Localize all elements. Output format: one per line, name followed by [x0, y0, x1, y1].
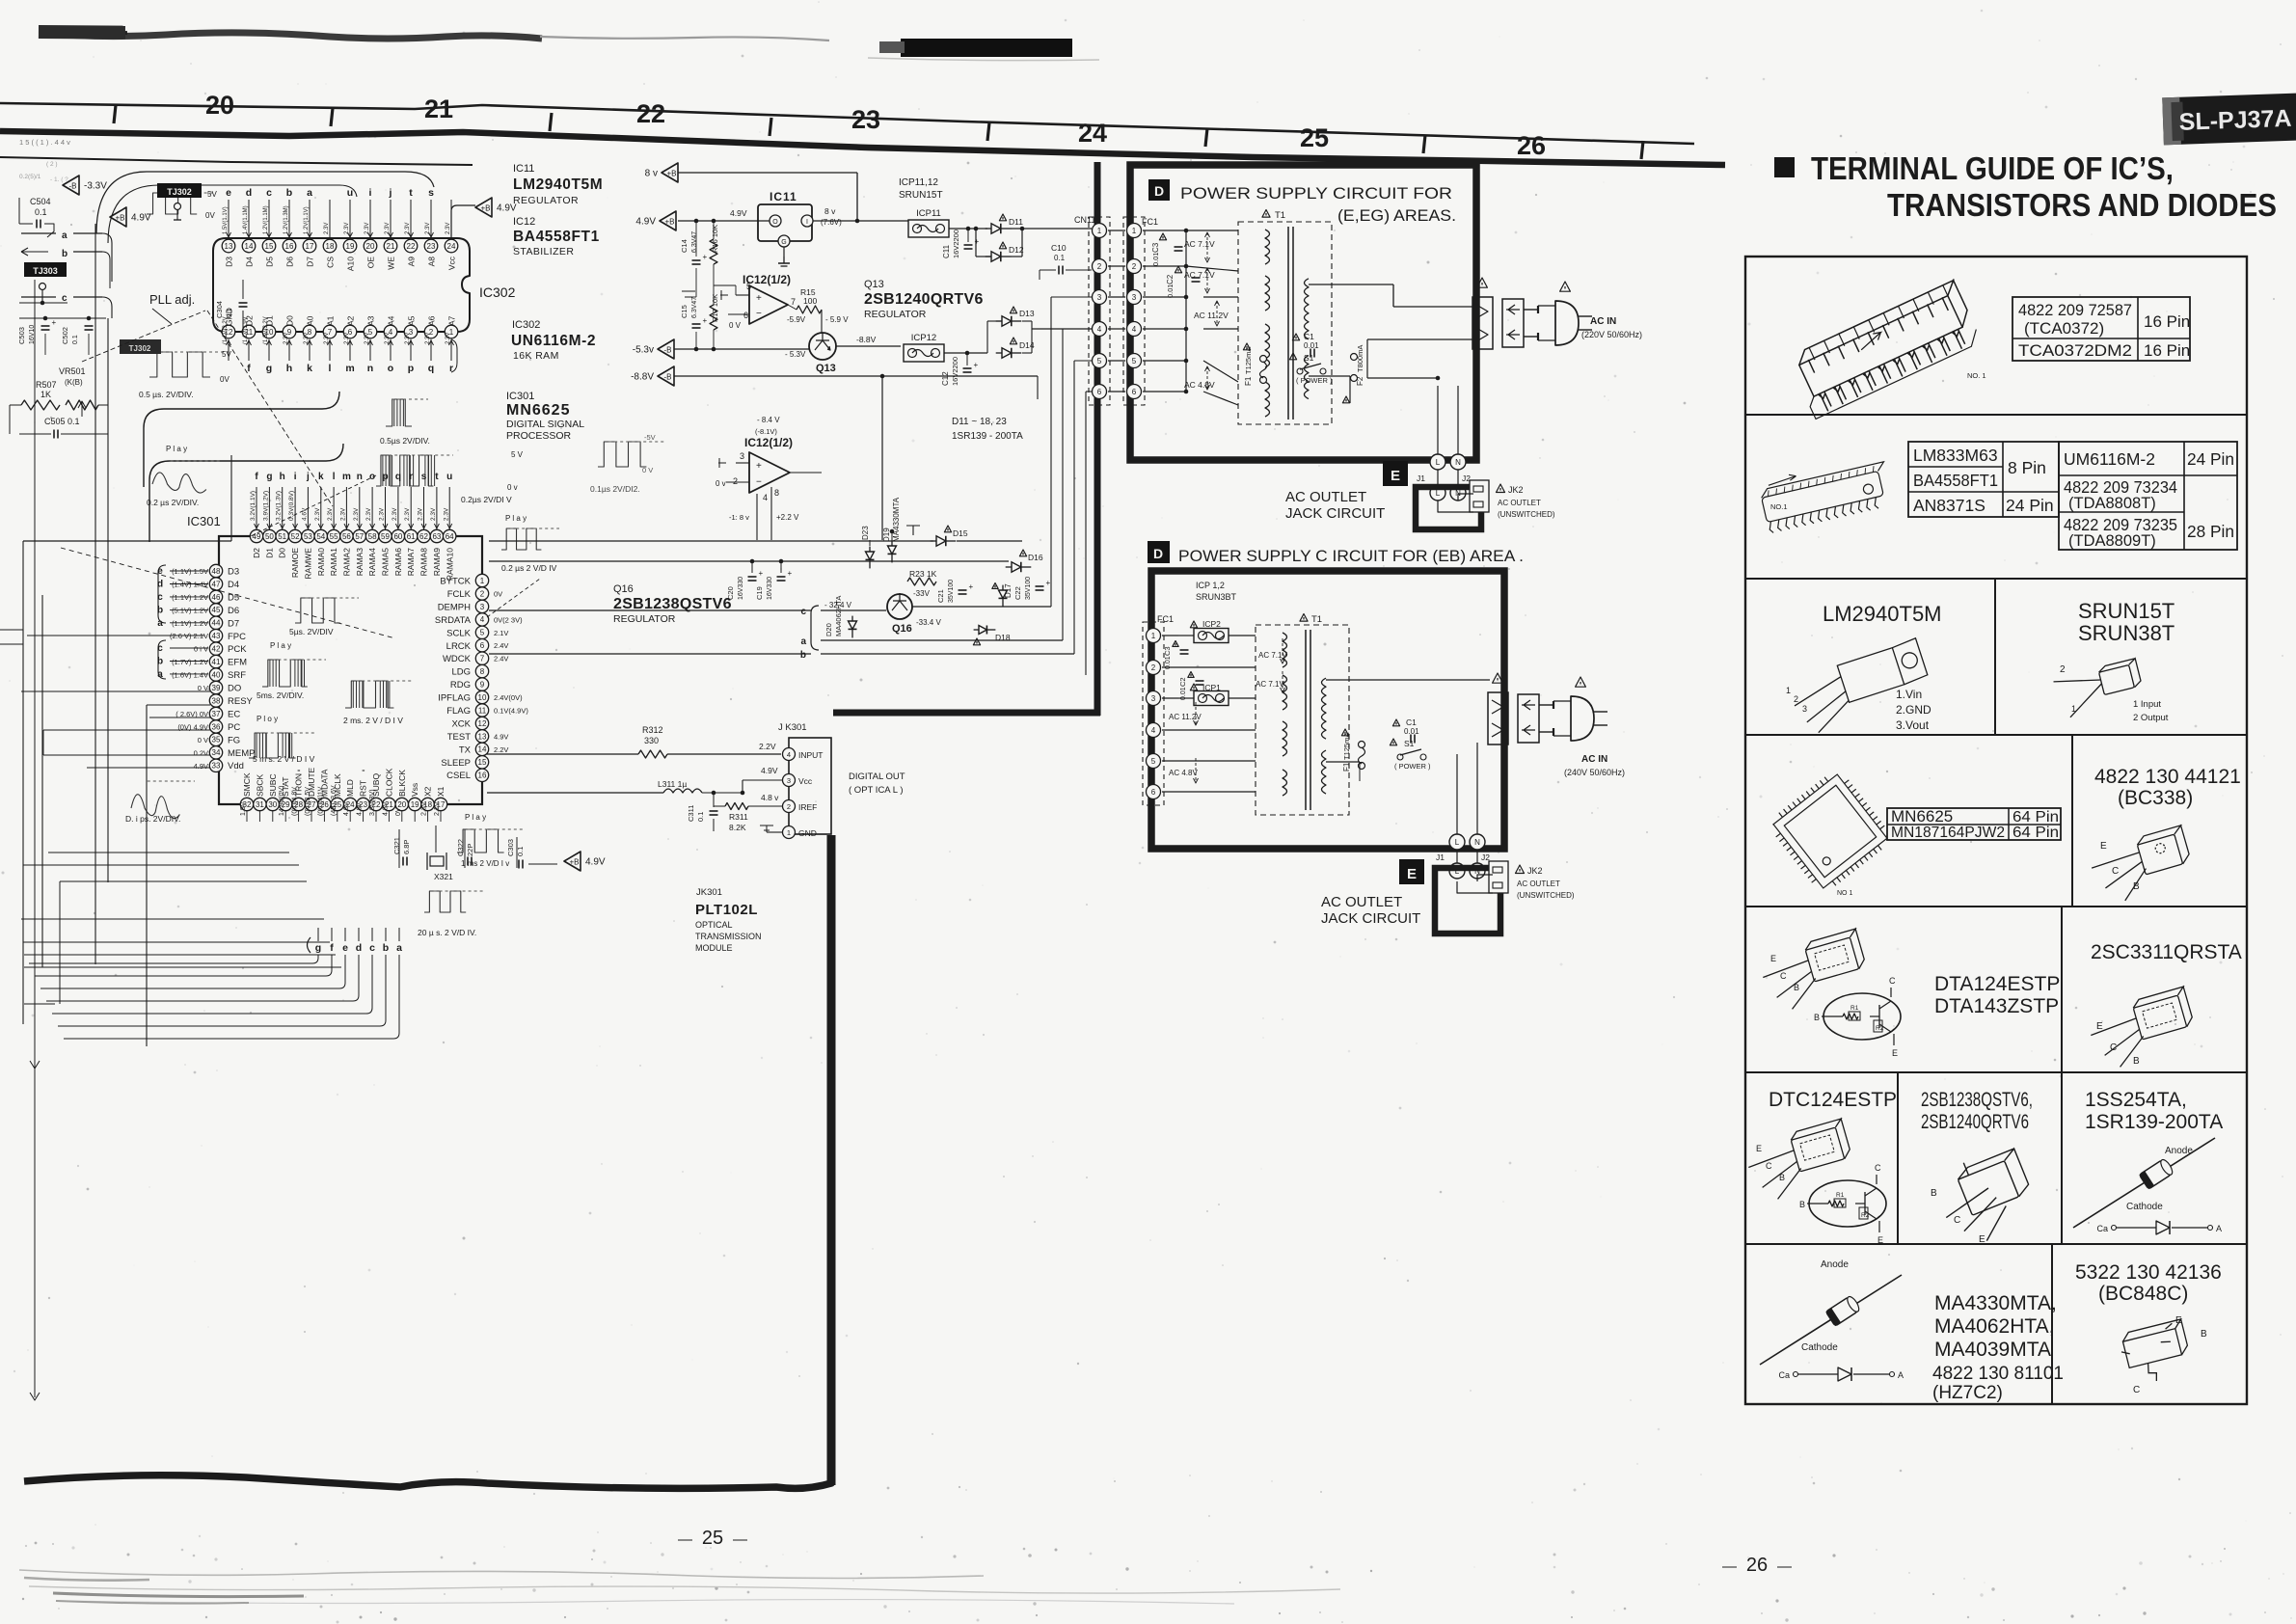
svg-text:C: C [2110, 1042, 2117, 1053]
svg-text:L: L [1436, 489, 1441, 498]
svg-text:48: 48 [212, 567, 221, 576]
svg-text:AN8371S: AN8371S [1913, 496, 1985, 515]
svg-text:—: — [1777, 1558, 1792, 1575]
svg-text:INPUT: INPUT [798, 750, 824, 760]
svg-text:RESY: RESY [228, 696, 254, 707]
svg-text:4.6V: 4.6V [343, 801, 350, 816]
svg-text:AC OUTLET: AC OUTLET [1285, 489, 1366, 505]
svg-text:IC12: IC12 [513, 216, 535, 228]
svg-text:A9: A9 [407, 257, 417, 267]
svg-text:4.9v: 4.9v [357, 802, 364, 816]
svg-text:R2: R2 [1876, 1025, 1884, 1032]
svg-text:−: − [756, 309, 762, 319]
svg-text:SCLK: SCLK [446, 628, 471, 638]
svg-text:o: o [388, 363, 393, 374]
svg-text:D4: D4 [245, 257, 255, 267]
svg-text:0 V: 0 V [198, 736, 208, 744]
svg-text:(BC848C): (BC848C) [2098, 1283, 2188, 1305]
svg-text:AC 11.2V: AC 11.2V [1169, 713, 1202, 721]
svg-text:16K RAM: 16K RAM [513, 350, 559, 362]
svg-text:TJ302: TJ302 [129, 344, 151, 353]
svg-text:2.3V: 2.3V [353, 507, 360, 521]
svg-text:61: 61 [407, 532, 416, 541]
svg-text:58: 58 [368, 532, 377, 541]
svg-text:g: g [266, 472, 272, 482]
svg-text:d: d [246, 187, 252, 199]
svg-text:C505 0.1: C505 0.1 [44, 417, 80, 426]
svg-text:2.3V: 2.3V [430, 507, 437, 521]
svg-text:4.8 v: 4.8 v [761, 793, 779, 802]
svg-text:63: 63 [432, 532, 441, 541]
svg-text:j: j [389, 187, 392, 199]
svg-text:EC: EC [228, 710, 240, 720]
svg-text:(UNSWITCHED): (UNSWITCHED) [1498, 510, 1555, 519]
svg-text:E: E [2096, 1021, 2103, 1032]
svg-text:23: 23 [851, 105, 880, 134]
svg-text:-8.8V: -8.8V [631, 372, 654, 383]
svg-text:4822 209 73234: 4822 209 73234 [2064, 477, 2177, 497]
svg-text:b: b [157, 657, 163, 667]
svg-text:DO: DO [228, 684, 241, 694]
svg-text:2.3V: 2.3V [405, 223, 411, 234]
svg-text:55: 55 [330, 532, 338, 541]
svg-text:15: 15 [265, 242, 274, 251]
svg-text:15: 15 [478, 758, 487, 767]
svg-text:PC: PC [228, 722, 240, 733]
svg-text:+: + [1046, 579, 1051, 587]
svg-text:P l a y: P l a y [505, 514, 527, 523]
svg-text:c: c [157, 643, 163, 654]
svg-text:LDG: LDG [451, 667, 471, 678]
svg-text:2 ms. 2 V / D I V: 2 ms. 2 V / D I V [343, 716, 403, 725]
svg-text:2.3V: 2.3V [385, 223, 391, 234]
svg-text:21: 21 [387, 242, 395, 251]
svg-text:22P: 22P [466, 844, 474, 856]
svg-text:POWER SUPPLY CIRCUIT FOR: POWER SUPPLY CIRCUIT FOR [1180, 184, 1452, 203]
svg-text:SUBC: SUBC [268, 773, 278, 797]
svg-text:19: 19 [346, 242, 355, 251]
svg-text:2.3V: 2.3V [324, 223, 330, 234]
svg-text:28 Pin: 28 Pin [2187, 522, 2234, 541]
svg-text:IC301: IC301 [187, 514, 221, 528]
svg-text:MLD: MLD [345, 779, 355, 797]
svg-text:C: C [2133, 1385, 2140, 1395]
svg-text:C: C [1875, 1163, 1881, 1173]
svg-text:0.01: 0.01 [1304, 341, 1319, 350]
svg-text:SL-PJ37A: SL-PJ37A [2178, 105, 2292, 136]
svg-text:RAMA3: RAMA3 [355, 548, 365, 577]
svg-text:42: 42 [212, 645, 221, 654]
svg-text:B: B [1931, 1188, 1937, 1199]
svg-text:D3: D3 [228, 567, 239, 578]
svg-text:46: 46 [212, 593, 221, 602]
svg-text:TJ303: TJ303 [33, 266, 58, 276]
svg-text:24: 24 [1078, 119, 1107, 148]
svg-text:C: C [1954, 1215, 1960, 1226]
svg-text:C504: C504 [30, 197, 51, 206]
svg-text:2SB1240QRTV6: 2SB1240QRTV6 [864, 291, 984, 308]
svg-text:C10: C10 [1051, 243, 1067, 253]
svg-text:FPC: FPC [228, 632, 246, 642]
svg-text:(1.6V) 1.4V: (1.6V) 1.4V [172, 671, 208, 680]
svg-text:c: c [266, 187, 272, 199]
svg-text:(TCA0372): (TCA0372) [2024, 319, 2104, 338]
svg-text:MA4062HTA: MA4062HTA [834, 596, 843, 636]
svg-text:4.9V: 4.9V [494, 732, 508, 741]
svg-text:6: 6 [1151, 788, 1156, 797]
svg-text:C2: C2 [1166, 274, 1175, 284]
svg-text:C: C [1889, 976, 1896, 986]
svg-text:2: 2 [733, 476, 738, 486]
svg-text:ICP11,12: ICP11,12 [899, 177, 938, 188]
svg-text:45: 45 [212, 606, 221, 614]
svg-text:(1.1V) 1.2V: (1.1V) 1.2V [172, 593, 208, 602]
svg-text:3: 3 [480, 603, 485, 611]
svg-text:a: a [62, 230, 68, 241]
svg-text:A0: A0 [306, 315, 315, 326]
svg-text:+B: +B [569, 858, 579, 867]
svg-text:16V2200: 16V2200 [951, 357, 959, 386]
svg-text:T1: T1 [1275, 210, 1285, 221]
svg-text:SRDATA: SRDATA [435, 615, 472, 626]
svg-text:- 8.4 V: - 8.4 V [757, 416, 780, 424]
svg-text:J1: J1 [1417, 474, 1425, 483]
svg-text:0.3V(0.8V): 0.3V(0.8V) [288, 491, 295, 521]
svg-text:C1: C1 [1406, 717, 1417, 727]
svg-text:3: 3 [740, 451, 744, 461]
svg-text:(1.1V) 1.5V: (1.1V) 1.5V [172, 567, 208, 576]
svg-text:100: 100 [803, 296, 817, 306]
svg-text:30: 30 [268, 800, 277, 809]
svg-text:0.01: 0.01 [1151, 252, 1160, 266]
svg-text:+: + [52, 318, 57, 327]
svg-text:WDCK: WDCK [443, 654, 472, 664]
svg-text:2: 2 [1794, 694, 1798, 704]
svg-text:Vss: Vss [410, 783, 419, 797]
svg-text:IPFLAG: IPFLAG [438, 693, 471, 704]
svg-text:A2: A2 [346, 315, 356, 326]
svg-text:E: E [2175, 1315, 2182, 1326]
svg-text:3.Vout: 3.Vout [1896, 718, 1930, 732]
svg-text:0.01: 0.01 [1404, 727, 1419, 736]
svg-text:(1.1V)3.2V: (1.1V)3.2V [223, 316, 229, 344]
svg-text:2.3V: 2.3V [379, 507, 386, 521]
svg-text:AC OUTLET: AC OUTLET [1517, 880, 1560, 888]
svg-text:26: 26 [1746, 1555, 1768, 1576]
svg-text:C21: C21 [936, 589, 945, 603]
svg-text:(1.4V) 1.4V: (1.4V) 1.4V [172, 581, 208, 589]
svg-text:1 5 ( ( 1 ) . 4 4 v: 1 5 ( ( 1 ) . 4 4 v [19, 138, 70, 147]
svg-text:JK2: JK2 [1527, 866, 1543, 876]
svg-text:B: B [2133, 881, 2140, 892]
svg-text:D6: D6 [228, 606, 239, 616]
svg-text:AC IN: AC IN [1590, 316, 1616, 327]
svg-text:4.9V: 4.9V [131, 213, 151, 224]
svg-text:r: r [449, 363, 453, 374]
svg-text:0.2(5)/1: 0.2(5)/1 [19, 174, 41, 180]
svg-text:T1: T1 [1311, 614, 1322, 625]
svg-text:(0V)(4.8V: (0V)(4.8V [292, 787, 299, 816]
svg-text:B: B [1799, 1200, 1805, 1209]
svg-text:A6: A6 [427, 315, 437, 326]
svg-text:4: 4 [1151, 726, 1156, 735]
svg-text:+B: +B [480, 204, 490, 213]
svg-text:ICP2: ICP2 [1202, 619, 1221, 629]
svg-text:-8.8V: -8.8V [856, 335, 877, 344]
svg-text:L311 1µ: L311 1µ [658, 779, 687, 789]
svg-text:(TDA8808T): (TDA8808T) [2068, 495, 2156, 512]
svg-text:0.1: 0.1 [35, 207, 47, 217]
svg-text:RAMA1: RAMA1 [329, 548, 338, 577]
svg-text:5µs. 2V/DIV: 5µs. 2V/DIV [289, 627, 334, 636]
svg-text:E: E [1407, 866, 1417, 882]
svg-text:31: 31 [256, 800, 264, 809]
svg-text:C311: C311 [687, 805, 695, 822]
svg-text:4.9V: 4.9V [585, 857, 606, 868]
svg-text:+: + [756, 293, 762, 304]
svg-text:2.4V: 2.4V [494, 655, 508, 663]
svg-text:ICP12: ICP12 [911, 333, 936, 343]
svg-text:5: 5 [1151, 757, 1156, 766]
svg-text:j: j [306, 472, 310, 482]
svg-text:a: a [157, 618, 163, 629]
svg-text:X321: X321 [434, 872, 453, 881]
svg-text:B: B [1814, 1013, 1820, 1022]
svg-text:0.2V: 0.2V [194, 748, 208, 757]
svg-text:D23: D23 [861, 526, 870, 540]
svg-text:4: 4 [1097, 325, 1102, 334]
svg-text:2.3V: 2.3V [365, 507, 372, 521]
svg-text:UM6116M-2: UM6116M-2 [2064, 449, 2155, 469]
svg-text:B: B [2201, 1329, 2207, 1340]
svg-text:2.3V: 2.3V [344, 333, 350, 344]
svg-text:SBCK: SBCK [255, 774, 264, 797]
svg-text:IC302: IC302 [479, 284, 516, 300]
svg-text:DIGITAL OUT: DIGITAL OUT [849, 771, 905, 782]
svg-text:D19: D19 [882, 528, 891, 542]
svg-text:+: + [756, 461, 762, 472]
svg-text:62: 62 [419, 532, 428, 541]
svg-text:(240V 50/60Hz): (240V 50/60Hz) [1564, 768, 1625, 777]
svg-text:-33.4 V: -33.4 V [916, 618, 941, 627]
svg-text:56: 56 [342, 532, 351, 541]
svg-text:D5: D5 [265, 257, 275, 267]
svg-text:4822 209 73235: 4822 209 73235 [2064, 515, 2177, 534]
svg-text:TERMINAL GUIDE OF IC’S,: TERMINAL GUIDE OF IC’S, [1811, 150, 2174, 186]
svg-text:F2: F2 [1356, 376, 1364, 386]
svg-text:D0: D0 [278, 548, 287, 558]
svg-text:FC1: FC1 [1142, 217, 1158, 227]
svg-text:( OPT ICA L ): ( OPT ICA L ) [849, 785, 904, 796]
svg-text:1.4V(1.1M): 1.4V(1.1M) [243, 205, 249, 234]
svg-text:m: m [345, 363, 354, 374]
svg-text:R1: R1 [1850, 1005, 1859, 1012]
svg-text:D17: D17 [1004, 583, 1013, 598]
svg-text:FC1: FC1 [1157, 614, 1174, 624]
svg-text:3.2V(1.3V): 3.2V(1.3V) [276, 491, 283, 521]
svg-text:25: 25 [1300, 123, 1329, 152]
svg-text:REGULATOR: REGULATOR [864, 309, 927, 320]
svg-text:AC 11.2V: AC 11.2V [1194, 311, 1229, 320]
svg-text:F1: F1 [1244, 376, 1253, 386]
svg-text:E: E [1892, 1048, 1898, 1058]
svg-text:41: 41 [212, 658, 221, 666]
svg-text:C2: C2 [1178, 677, 1187, 687]
svg-text:L: L [1455, 838, 1460, 847]
svg-text:1.2V(1.1V): 1.2V(1.1V) [304, 206, 310, 234]
svg-text:18: 18 [326, 242, 335, 251]
svg-text:TEST: TEST [447, 732, 471, 743]
svg-text:CLOCK: CLOCK [384, 768, 393, 797]
svg-text:+: + [703, 316, 708, 325]
svg-text:C: C [1766, 1161, 1772, 1171]
svg-text:-1: 8 v: -1: 8 v [729, 513, 749, 522]
svg-text:JACK CIRCUIT: JACK CIRCUIT [1321, 910, 1420, 927]
svg-text:—: — [733, 1531, 747, 1548]
svg-text:PLT102L: PLT102L [695, 902, 758, 918]
svg-text:A5: A5 [407, 315, 417, 326]
svg-text:FCLK: FCLK [447, 589, 472, 600]
svg-text:2.3V: 2.3V [418, 507, 424, 521]
svg-text:2: 2 [480, 589, 485, 598]
svg-text:+: + [703, 253, 708, 261]
svg-text:h: h [280, 472, 285, 482]
svg-text:0.1V(4.9V): 0.1V(4.9V) [494, 707, 528, 716]
svg-text:33: 33 [212, 762, 221, 771]
svg-text:Vcc: Vcc [798, 776, 813, 786]
svg-text:RDG: RDG [450, 680, 471, 690]
svg-text:R312: R312 [642, 725, 663, 735]
svg-text:SRUN15T: SRUN15T [2078, 599, 2174, 623]
svg-text:2.3V: 2.3V [405, 333, 411, 344]
svg-text:c: c [157, 592, 163, 603]
svg-text:(-8.1V): (-8.1V) [755, 427, 777, 436]
svg-text:BLKCK: BLKCK [397, 770, 407, 797]
svg-text:J1: J1 [1436, 853, 1445, 862]
svg-text:MA4062HTA,: MA4062HTA, [1934, 1315, 2055, 1338]
svg-text:e: e [226, 187, 231, 199]
svg-text:a: a [800, 636, 806, 647]
svg-text:+B: +B [664, 218, 674, 227]
svg-text:4: 4 [763, 493, 768, 502]
svg-text:R1: R1 [1836, 1192, 1845, 1199]
svg-text:2.3V: 2.3V [365, 223, 370, 234]
svg-text:26: 26 [1517, 131, 1546, 160]
svg-text:D0: D0 [285, 315, 295, 326]
svg-text:AC 7.1V: AC 7.1V [1184, 239, 1215, 249]
svg-text:2.GND: 2.GND [1896, 703, 1931, 717]
svg-text:D5: D5 [228, 592, 239, 603]
svg-text:(TDA8809T): (TDA8809T) [2068, 532, 2156, 550]
svg-text:A4: A4 [387, 315, 396, 326]
svg-text:+: + [759, 569, 764, 578]
svg-text:b: b [800, 650, 806, 661]
svg-text:Q13: Q13 [864, 279, 884, 290]
svg-text:b: b [286, 187, 292, 199]
svg-text:C11: C11 [942, 244, 951, 258]
svg-text:LM2940T5M: LM2940T5M [513, 176, 603, 193]
svg-text:AC 7.1V: AC 7.1V [1258, 651, 1287, 660]
svg-text:R23 1K: R23 1K [909, 569, 937, 579]
svg-text:REGULATOR: REGULATOR [613, 613, 676, 625]
svg-text:D: D [1154, 183, 1164, 199]
svg-text:14.9V(0V): 14.9V(0V) [279, 785, 285, 816]
svg-text:1: 1 [1786, 686, 1791, 695]
svg-text:39: 39 [212, 684, 221, 692]
svg-text:l: l [329, 363, 332, 374]
svg-text:20: 20 [366, 242, 375, 251]
svg-text:4: 4 [480, 615, 485, 624]
svg-text:5ms. 2V/DIV.: 5ms. 2V/DIV. [257, 690, 304, 700]
svg-text:u: u [446, 472, 452, 482]
svg-text:AC OUTLET: AC OUTLET [1498, 499, 1541, 507]
svg-text:Q16: Q16 [892, 623, 912, 635]
svg-text:330: 330 [644, 736, 659, 745]
svg-text:24 Pin: 24 Pin [2006, 496, 2054, 515]
svg-text:RAMA0: RAMA0 [316, 548, 326, 577]
svg-text:5V: 5V [222, 350, 231, 359]
svg-text:(1.7V) 1.2V: (1.7V) 1.2V [172, 658, 208, 666]
svg-text:d: d [157, 580, 163, 590]
svg-text:R311: R311 [729, 812, 748, 822]
svg-text:7: 7 [480, 655, 485, 663]
svg-text:IC302: IC302 [512, 319, 540, 331]
svg-text:0V: 0V [395, 807, 402, 816]
svg-text:2.4V(0V): 2.4V(0V) [494, 693, 523, 702]
svg-text:8 Pin: 8 Pin [2008, 458, 2046, 477]
svg-text:DTA143ZSTP: DTA143ZSTP [1934, 995, 2059, 1017]
svg-text:0.2 µs 2V/DIV.: 0.2 µs 2V/DIV. [147, 498, 199, 507]
svg-text:1.2V(1.3M): 1.2V(1.3M) [284, 205, 289, 234]
svg-text:N: N [1474, 838, 1480, 847]
svg-text:—: — [1722, 1558, 1737, 1575]
svg-text:52: 52 [291, 532, 300, 541]
svg-text:CN11: CN11 [1074, 215, 1095, 225]
svg-text:(E,EG) AREAS.: (E,EG) AREAS. [1337, 206, 1456, 225]
svg-text:4822 209 72587: 4822 209 72587 [2018, 301, 2132, 319]
svg-text:11: 11 [478, 706, 487, 715]
svg-text:RAMA4: RAMA4 [367, 548, 377, 577]
svg-text:l: l [333, 472, 336, 482]
svg-text:24 Pin: 24 Pin [2187, 449, 2234, 469]
svg-text:RAMWE: RAMWE [303, 548, 312, 580]
svg-text:1: 1 [2071, 704, 2076, 714]
svg-text:s: s [421, 472, 427, 482]
svg-text:C503: C503 [17, 327, 26, 344]
svg-text:N: N [1455, 458, 1461, 467]
svg-text:13: 13 [478, 732, 487, 741]
svg-text:E: E [1877, 1235, 1883, 1245]
svg-text:WE: WE [387, 257, 396, 270]
svg-text:44: 44 [212, 619, 221, 628]
svg-text:P l a y: P l a y [270, 641, 291, 650]
svg-text:2.3V: 2.3V [446, 333, 451, 344]
svg-text:T800mA: T800mA [1356, 345, 1364, 372]
svg-text:(7.6V): (7.6V) [821, 218, 842, 227]
svg-text:A8: A8 [427, 257, 437, 267]
svg-text:PROCESSOR: PROCESSOR [506, 430, 572, 442]
svg-text:1SR139-200TA: 1SR139-200TA [2085, 1111, 2223, 1133]
svg-text:24: 24 [447, 242, 456, 251]
svg-text:A10: A10 [346, 257, 356, 271]
svg-text:TCA0372DM2: TCA0372DM2 [2018, 341, 2132, 360]
svg-text:P l a y: P l a y [166, 445, 187, 453]
svg-text:TRANSMISSION: TRANSMISSION [695, 932, 762, 941]
svg-text:JK301: JK301 [696, 887, 722, 898]
svg-text:1 Input: 1 Input [2133, 699, 2161, 710]
svg-text:8.2K: 8.2K [729, 823, 746, 832]
svg-text:1.5V(1.1V): 1.5V(1.1V) [223, 206, 229, 234]
